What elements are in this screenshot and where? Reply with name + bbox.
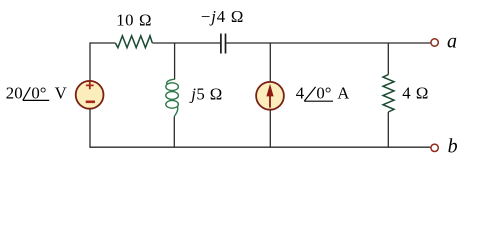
voltage source minus [86,101,95,104]
svg-text:j5 Ω: j5 Ω [189,84,222,103]
svg-text:4: 4 [296,84,305,103]
svg-text:V: V [55,84,67,103]
svg-text:10 Ω: 10 Ω [116,11,152,30]
wire top middle (resistor to capacitor) [152,42,221,44]
wire bottom horizontal [89,146,430,148]
capacitor -j4 plate left [220,34,222,54]
svg-text:0°: 0° [31,84,46,103]
label 4 angle 0 A [296,84,350,103]
svg-text:20: 20 [6,84,23,103]
wire inductor branch lower [173,117,175,148]
current source circle [256,82,284,110]
resistor 10 Ohm zigzag [115,36,152,48]
inductor j5 coil [166,79,179,116]
wire current-source branch lower [269,110,271,147]
terminal a [431,39,438,46]
svg-text:b: b [448,136,458,158]
wire left vertical upper [89,42,91,80]
wire current-source branch upper [269,43,271,82]
voltage source plus [86,82,94,90]
svg-text:a: a [447,30,457,52]
wire right branch upper [387,43,389,75]
voltage source circle [76,81,104,109]
terminal b [431,144,438,151]
wire inductor branch upper [174,43,176,80]
svg-text:4 Ω: 4 Ω [402,84,429,103]
wire top-left horizontal [90,42,115,44]
wire left vertical lower [89,109,91,147]
label 20 angle 0 V [6,84,67,103]
current source arrow [269,95,271,108]
capacitor -j4 plate right [225,34,227,54]
svg-text:−j4 Ω: −j4 Ω [201,7,244,26]
wire right branch lower [387,112,389,147]
wire top right (capacitor to terminal a) [226,42,430,44]
resistor 4 Ohm vertical zigzag [383,75,394,112]
svg-text:A: A [337,84,349,103]
svg-text:0°: 0° [316,84,331,103]
